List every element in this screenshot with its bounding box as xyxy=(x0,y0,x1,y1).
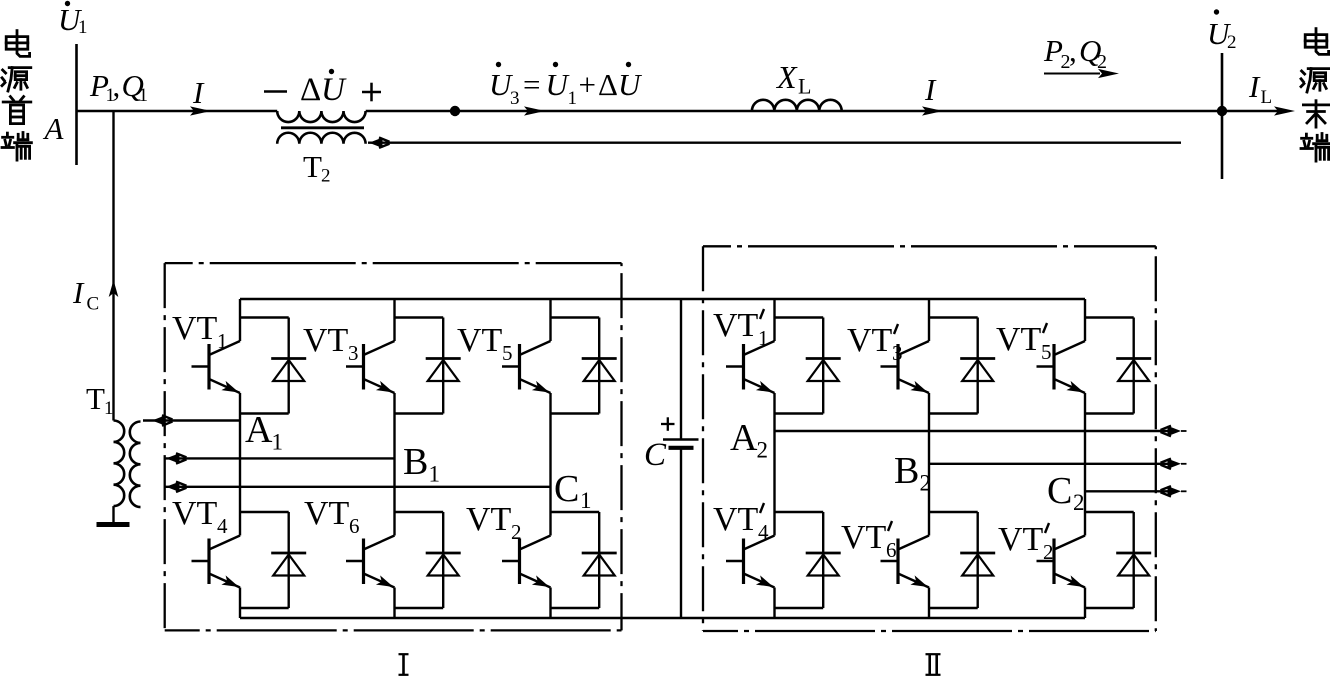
svg-text:C: C xyxy=(87,294,100,315)
wire node C1 to converter I edge xyxy=(164,482,551,492)
svg-text:I: I xyxy=(192,75,205,110)
svg-text:6: 6 xyxy=(886,538,897,562)
svg-text:2: 2 xyxy=(1227,32,1237,53)
transformer T1 secondary winding xyxy=(130,422,141,508)
diode of VT5 xyxy=(551,318,617,414)
label node A xyxy=(43,111,65,146)
svg-text:B: B xyxy=(403,441,428,483)
label VT3 prime xyxy=(847,322,903,365)
svg-text:,: , xyxy=(113,68,121,103)
diode of VT3 xyxy=(395,318,461,414)
diode of VT6 xyxy=(395,512,461,608)
svg-text:X: X xyxy=(775,59,798,95)
svg-text:Δ: Δ xyxy=(300,72,321,108)
svg-text:I: I xyxy=(1248,69,1261,104)
transformer T2 series winding xyxy=(277,111,365,122)
label VT5 prime xyxy=(996,321,1052,364)
svg-text:A: A xyxy=(245,409,273,451)
diode of VT6 prime xyxy=(929,512,995,608)
label XL xyxy=(775,59,811,99)
transistor VT1 xyxy=(192,299,241,536)
label T1 xyxy=(86,381,114,419)
label chinese sending-end column xyxy=(2,31,31,161)
diode of VT5 prime xyxy=(1085,318,1151,414)
wire capacitor top lead xyxy=(680,299,682,440)
transistor VT2 xyxy=(502,536,551,619)
svg-text:5: 5 xyxy=(1041,340,1052,364)
label delta-U with dot xyxy=(300,69,347,108)
wire main line left segment xyxy=(77,110,278,112)
transistor VT6 xyxy=(346,536,395,619)
svg-text:=: = xyxy=(523,67,540,102)
label current I after XL xyxy=(924,72,937,107)
svg-text:I: I xyxy=(924,72,937,107)
svg-text:+: + xyxy=(579,67,596,102)
svg-text:C: C xyxy=(554,468,579,510)
wire to load with arrow IL xyxy=(1222,106,1295,115)
arrow IC upward xyxy=(109,280,119,297)
transistor VT2 prime xyxy=(1037,536,1086,619)
label VT5 xyxy=(457,322,513,365)
wire node A2 output xyxy=(775,426,1187,436)
svg-text:A: A xyxy=(43,111,65,146)
label node B1 xyxy=(403,441,440,487)
svg-text:U: U xyxy=(618,67,643,102)
arrow after U3 node xyxy=(524,106,545,115)
svg-text:L: L xyxy=(798,74,811,99)
svg-text:VT: VT xyxy=(841,519,887,556)
node junction dot at U2 bus xyxy=(1217,106,1227,116)
svg-text:3: 3 xyxy=(348,341,359,365)
svg-text:2: 2 xyxy=(1073,490,1085,515)
svg-text:VT: VT xyxy=(304,495,350,532)
label P1,Q1 xyxy=(89,68,148,106)
inductor XL line reactance xyxy=(752,100,842,111)
svg-text:1: 1 xyxy=(139,85,149,106)
svg-text:VT: VT xyxy=(172,495,218,532)
transistor VT3 prime xyxy=(881,299,930,536)
wire DC positive rail xyxy=(240,298,1085,300)
label IL xyxy=(1248,69,1272,108)
label VT6 xyxy=(304,495,360,538)
converter I dash-dot enclosure xyxy=(165,263,622,630)
label converter II numeral xyxy=(926,654,941,675)
arrow current I into T2 xyxy=(190,106,211,115)
label VT6 prime xyxy=(841,519,897,562)
wire return line to T2 secondary xyxy=(368,138,1181,148)
node junction dot at U3 xyxy=(450,106,460,116)
svg-text:1: 1 xyxy=(272,430,284,455)
svg-text:VT: VT xyxy=(457,322,503,359)
label P2,Q2 xyxy=(1043,33,1107,73)
svg-text:,: , xyxy=(1069,33,1077,68)
label chinese receiving-end column xyxy=(1301,29,1330,162)
transformer T1 primary winding xyxy=(114,421,125,507)
svg-text:1: 1 xyxy=(217,329,228,353)
svg-text:VT: VT xyxy=(466,501,512,538)
svg-text:2: 2 xyxy=(920,471,932,496)
wire main line T2 to U2 bus xyxy=(366,110,1222,112)
svg-text:VT: VT xyxy=(996,321,1042,358)
wire DC negative rail xyxy=(240,617,1085,619)
label plus of capacitor xyxy=(661,417,675,431)
diode of VT4 prime xyxy=(775,512,841,608)
label VT4 prime xyxy=(713,501,769,544)
svg-text:A: A xyxy=(730,417,758,459)
ground xyxy=(97,522,130,527)
node U2 bus bar (receiving end) xyxy=(1221,53,1224,179)
transformer T2 secondary winding xyxy=(277,133,365,144)
label node A1 xyxy=(245,409,283,455)
svg-text:VT: VT xyxy=(713,307,759,344)
label converter I numeral xyxy=(399,654,409,675)
arrow line current I xyxy=(922,106,943,115)
label node A2 xyxy=(730,417,768,463)
diode of VT1 xyxy=(240,318,306,414)
label U1 with dot xyxy=(58,1,88,38)
svg-text:2: 2 xyxy=(757,438,769,463)
wire T1 to ground xyxy=(112,506,114,524)
svg-text:1: 1 xyxy=(429,462,441,487)
label U2 with dot xyxy=(1207,9,1237,53)
transistor VT5 xyxy=(502,299,551,536)
label plus of delta-U xyxy=(362,83,381,102)
svg-text:VT: VT xyxy=(713,501,759,538)
svg-text:2: 2 xyxy=(321,166,331,187)
wire node B1 to converter I edge xyxy=(164,453,395,463)
label VT2 prime xyxy=(998,521,1054,564)
transistor VT5 prime xyxy=(1037,299,1086,536)
transistor VT4 prime xyxy=(726,536,775,619)
svg-text:C: C xyxy=(644,437,667,473)
label U3 = U1 + delta-U xyxy=(489,62,643,109)
svg-text:3: 3 xyxy=(510,88,520,109)
capacitor C top plate xyxy=(663,438,699,441)
label node C1 xyxy=(554,468,592,513)
diode of VT4 xyxy=(240,512,306,608)
svg-text:4: 4 xyxy=(217,514,228,538)
transformer T2 core xyxy=(281,126,364,129)
svg-text:VT: VT xyxy=(303,322,349,359)
svg-text:U: U xyxy=(321,72,347,108)
transistor VT1 prime xyxy=(726,299,775,536)
capacitor C bottom plate xyxy=(669,446,694,450)
svg-text:VT: VT xyxy=(172,310,218,347)
svg-text:1: 1 xyxy=(758,326,769,350)
diode of VT2 prime xyxy=(1085,512,1151,608)
wire capacitor bottom lead xyxy=(680,448,682,618)
svg-text:L: L xyxy=(1261,87,1273,108)
svg-text:2: 2 xyxy=(1043,540,1054,564)
svg-text:5: 5 xyxy=(502,341,513,365)
label T2 xyxy=(303,149,331,187)
label VT4 xyxy=(172,495,228,538)
diode of VT1 prime xyxy=(775,318,841,414)
svg-text:1: 1 xyxy=(568,88,578,109)
label C capacitor xyxy=(644,437,667,473)
label IC xyxy=(72,275,99,315)
svg-text:T: T xyxy=(303,149,322,184)
wire shunt branch from node A xyxy=(112,111,114,421)
label VT1 xyxy=(172,310,228,353)
svg-text:I: I xyxy=(72,275,85,310)
svg-text:Δ: Δ xyxy=(598,67,618,102)
label minus of delta-U xyxy=(264,90,287,93)
wire node C2 output xyxy=(1085,486,1187,496)
label node C2 xyxy=(1047,470,1085,515)
transistor VT6 prime xyxy=(881,536,930,619)
diode of VT2 xyxy=(551,512,617,608)
diode of VT3 prime xyxy=(929,318,995,414)
svg-text:1: 1 xyxy=(580,488,592,513)
converter II dash-dot enclosure xyxy=(703,246,1156,631)
svg-text:4: 4 xyxy=(758,520,769,544)
label VT2 xyxy=(466,501,522,544)
svg-text:T: T xyxy=(86,381,105,416)
svg-text:VT: VT xyxy=(847,322,893,359)
label VT3 xyxy=(303,322,359,365)
transistor VT4 xyxy=(192,536,241,619)
label node B2 xyxy=(894,450,931,496)
label current I at sending end xyxy=(192,75,205,110)
svg-text:C: C xyxy=(1047,470,1072,512)
svg-text:6: 6 xyxy=(349,514,360,538)
svg-text:1: 1 xyxy=(104,398,114,419)
transistor VT3 xyxy=(346,299,395,536)
svg-text:2: 2 xyxy=(511,520,522,544)
node U1 bus bar (sending end) xyxy=(75,44,78,165)
svg-text:VT: VT xyxy=(998,521,1044,558)
arrow P2,Q2 direction xyxy=(1044,69,1119,78)
wire node A1 to T1 xyxy=(143,415,240,425)
svg-text:B: B xyxy=(894,450,919,492)
svg-text:1: 1 xyxy=(78,17,88,38)
wire node B2 output xyxy=(929,459,1187,469)
svg-text:3: 3 xyxy=(892,341,903,365)
svg-text:2: 2 xyxy=(1097,51,1107,73)
label VT1 prime xyxy=(713,307,769,350)
